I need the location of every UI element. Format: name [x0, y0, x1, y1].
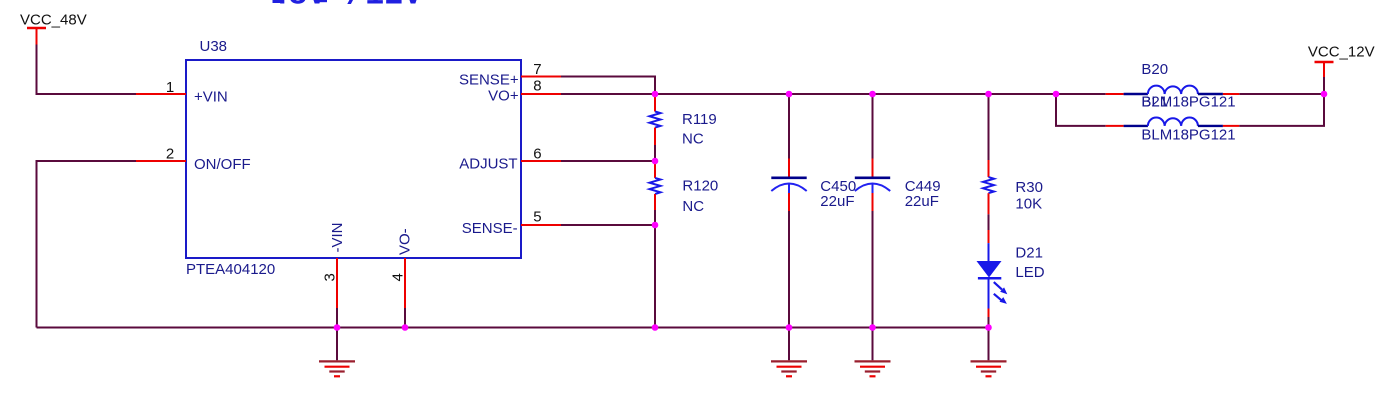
ground below pin 3 node	[319, 328, 355, 377]
ferrite bead B21 (designator overlapping above)	[1106, 94, 1240, 144]
svg-text:22uF: 22uF	[820, 193, 854, 210]
svg-text:LED: LED	[1015, 264, 1044, 281]
op-amp U1: IC U38 body	[186, 38, 521, 278]
wire bead branch rejoin	[1239, 94, 1324, 126]
U38 pin 1 +VIN	[136, 79, 228, 106]
U38 pin 2 ON/OFF	[136, 145, 251, 173]
resistor R120	[650, 161, 719, 215]
power symbol VCC_48V	[20, 11, 87, 44]
svg-text:B20: B20	[1141, 61, 1168, 78]
svg-text:10K: 10K	[1015, 196, 1042, 213]
U38 pin 8 VO+	[488, 78, 561, 105]
ground below C450	[771, 328, 807, 377]
svg-text:2: 2	[166, 145, 174, 162]
svg-text:PTEA404120: PTEA404120	[186, 261, 275, 278]
svg-text:SENSE-: SENSE-	[462, 220, 518, 237]
ground below LED	[971, 328, 1007, 377]
U38 pin 5 SENSE-	[462, 208, 561, 237]
node pin4 rail	[402, 324, 409, 331]
svg-text:BLM18PG121: BLM18PG121	[1141, 127, 1235, 144]
ground below C449	[855, 328, 891, 377]
diode D21 LED	[977, 230, 1045, 328]
svg-text:48V /12V: 48V /12V	[269, 0, 423, 14]
svg-text:ADJUST: ADJUST	[459, 155, 517, 172]
resistor R30	[983, 94, 1043, 214]
svg-text:NC: NC	[682, 198, 704, 215]
svg-text:ON/OFF: ON/OFF	[194, 156, 251, 173]
wire node down to rail	[654, 225, 656, 328]
node SENSE-/R120	[652, 222, 659, 229]
node pin3 rail	[334, 324, 341, 331]
capacitor C450	[771, 94, 856, 328]
wire ADJUST to node	[561, 160, 655, 162]
wire pin4 to rail	[404, 308, 406, 328]
svg-text:1: 1	[166, 79, 174, 96]
svg-text:NC: NC	[682, 130, 704, 147]
ferrite bead B20	[1106, 61, 1240, 111]
wire bottom ground rail	[37, 327, 989, 329]
svg-text:8: 8	[533, 78, 541, 95]
svg-text:7: 7	[533, 61, 541, 78]
U38 pin 6 ADJUST	[459, 146, 561, 173]
svg-text:3: 3	[322, 273, 339, 281]
node bead split	[1053, 91, 1060, 98]
U38 pin 4 VO-	[390, 228, 414, 308]
wire VCC_48V to pin 1	[37, 45, 137, 95]
svg-text:VCC_48V: VCC_48V	[20, 11, 87, 28]
wire R30 to LED	[988, 214, 990, 230]
svg-text:SENSE+: SENSE+	[459, 72, 519, 89]
node VCC_12V	[1321, 91, 1328, 98]
wire VO+ main rail	[561, 93, 1106, 95]
svg-text:6: 6	[533, 146, 541, 163]
node ADJUST/R119/R120	[652, 158, 659, 165]
wire SENSE- to node	[561, 224, 655, 226]
svg-text:R119: R119	[682, 111, 717, 128]
svg-text:-VIN: -VIN	[329, 223, 346, 253]
svg-text:5: 5	[533, 208, 541, 225]
svg-text:B21: B21	[1141, 94, 1168, 111]
node C449 rail	[869, 324, 876, 331]
svg-text:VO-: VO-	[397, 228, 414, 255]
svg-text:22uF: 22uF	[905, 193, 939, 210]
power symbol VCC_12V	[1308, 43, 1375, 94]
svg-text:D21: D21	[1015, 245, 1043, 262]
U38 pin 7 SENSE+	[459, 61, 561, 89]
svg-text:VCC_12V: VCC_12V	[1308, 43, 1375, 60]
node C450 top	[786, 91, 793, 98]
node C450 rail	[786, 324, 793, 331]
svg-text:4: 4	[390, 273, 407, 281]
wire SENSE+ over to node	[561, 77, 655, 95]
node LED rail	[985, 324, 992, 331]
wire pin3 to rail	[336, 308, 338, 328]
svg-text:+VIN: +VIN	[194, 89, 228, 106]
node SENSE+/R119 on rail	[652, 91, 659, 98]
node R30 top	[985, 91, 992, 98]
wire R119 to ADJUST node	[654, 145, 656, 161]
capacitor C449	[855, 94, 941, 328]
resistor R119	[650, 94, 717, 147]
node junction dots	[334, 91, 1328, 331]
svg-text:R120: R120	[682, 177, 718, 194]
wire bead branch split	[1056, 94, 1106, 126]
node R120 rail	[652, 324, 659, 331]
U38 pin 3 -VIN	[322, 223, 347, 309]
svg-text:U38: U38	[200, 38, 228, 55]
wire ON/OFF to bottom rail	[37, 161, 137, 328]
wire R120 to SENSE- node	[654, 210, 656, 225]
svg-text:R30: R30	[1015, 179, 1043, 196]
node C449 top	[869, 91, 876, 98]
svg-text:VO+: VO+	[488, 87, 519, 104]
